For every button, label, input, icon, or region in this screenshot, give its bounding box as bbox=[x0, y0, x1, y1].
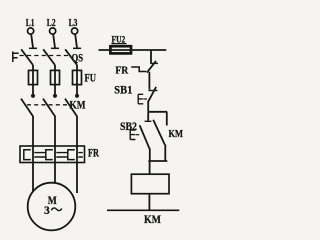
svg-text:SB2: SB2 bbox=[120, 119, 137, 133]
svg-text:FR: FR bbox=[115, 65, 129, 77]
svg-text:FU2: FU2 bbox=[112, 34, 126, 44]
svg-text:QS: QS bbox=[72, 51, 84, 65]
svg-text:KM: KM bbox=[144, 212, 161, 226]
svg-text:SB1: SB1 bbox=[114, 82, 132, 96]
svg-text:KM: KM bbox=[169, 129, 184, 140]
svg-text:L2: L2 bbox=[47, 17, 56, 29]
svg-text:3: 3 bbox=[44, 205, 50, 217]
svg-text:FU: FU bbox=[85, 71, 97, 85]
svg-text:L3: L3 bbox=[69, 17, 78, 29]
svg-text:L1: L1 bbox=[26, 17, 35, 29]
svg-text:FR: FR bbox=[88, 148, 99, 160]
svg-text:KM: KM bbox=[70, 100, 86, 112]
